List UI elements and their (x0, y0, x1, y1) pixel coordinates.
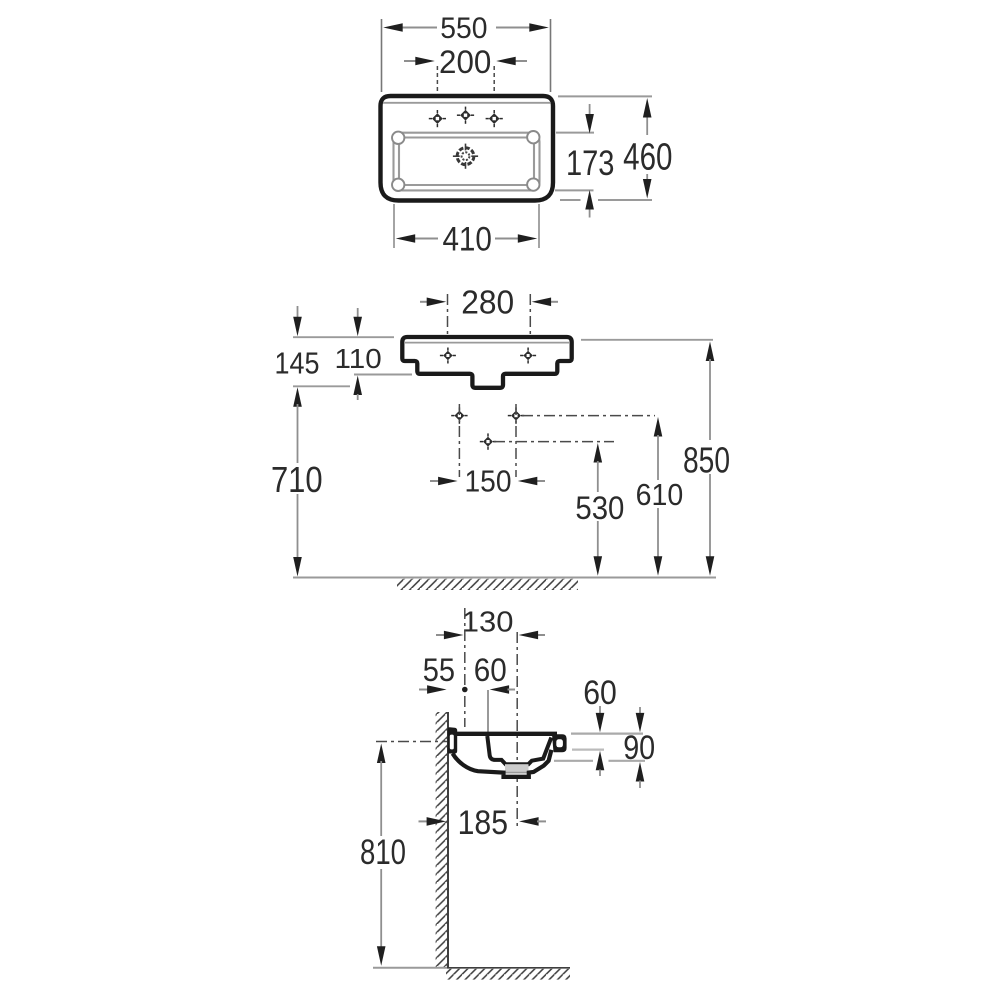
dim 60 right arrow up (596, 751, 605, 771)
dim 610 line (657, 435, 659, 480)
dim 90 arrow down (636, 713, 645, 733)
dim 810 line (380, 761, 382, 836)
extension line y386.3 (145 bottom) (293, 385, 350, 387)
dim 460 extension bottom (560, 199, 581, 201)
fixing hole right (front view) (508, 407, 524, 423)
washbasin outline front view (402, 337, 571, 388)
ground hatch side view (446, 969, 570, 980)
dim 185 tail right (537, 820, 546, 822)
dim 150 tail left (430, 480, 440, 482)
dim 550 line (401, 27, 437, 29)
drain outlet (top view) (453, 144, 478, 169)
backsplash slot (450, 735, 454, 750)
dim 200 arrow left (415, 57, 435, 66)
faucet hole left (top view) (429, 110, 446, 127)
wall face line (447, 712, 449, 968)
dim 55 tail left (419, 689, 429, 691)
centreline through fixing holes upper (522, 415, 655, 417)
front rim hook (side view) (552, 734, 567, 752)
dim 550 extension line right (550, 19, 552, 92)
dim 710 arrow down (293, 557, 302, 577)
dim 850 arrow down (706, 556, 715, 576)
dim 550 extension line left (381, 19, 383, 92)
tap hole left (front view) (440, 348, 456, 364)
ground line side view (373, 967, 447, 969)
dim 173 arrow tails (589, 104, 591, 116)
dim 460 line (646, 116, 648, 136)
dim 90 arrow up (636, 762, 645, 782)
centreline back fixing (side view) (464, 608, 466, 727)
dim 60 right tail bottom (599, 770, 601, 777)
dim 460 arrow up (643, 98, 652, 118)
overflow circle bottom-right (527, 178, 539, 190)
dim 460 arrow down (643, 179, 652, 199)
dim 110 arrow down (353, 317, 362, 337)
svg-text:60: 60 (474, 652, 507, 688)
svg-text:185: 185 (458, 804, 508, 842)
rim level centreline (376, 741, 447, 743)
dim 610 arrow down (654, 556, 663, 576)
dim 200 tail right (513, 60, 527, 62)
deck top line (side view) (455, 732, 557, 736)
drain stub fill (504, 773, 529, 777)
svg-text:200: 200 (439, 44, 491, 80)
overflow circle bottom-left (392, 179, 404, 191)
svg-text:710: 710 (271, 459, 323, 500)
dim 710 line (297, 404, 299, 463)
dim 410 arrow left (396, 234, 416, 243)
dim 280 arrow right (532, 298, 552, 307)
dim 185 tail left (419, 820, 428, 822)
drain recess fill (505, 764, 529, 772)
svg-text:280: 280 (461, 283, 514, 320)
dim 145 arrow tail top (297, 306, 299, 319)
basin rim outer line (top view) (394, 133, 540, 191)
extension deck top right (571, 732, 643, 734)
overflow circle top-left (392, 132, 404, 144)
dim 110 arrow up (353, 376, 362, 396)
tap hole right (front view) (520, 348, 536, 364)
dim 60 left arrow (490, 685, 510, 694)
svg-text:173: 173 (566, 144, 615, 183)
dim 200 arrow right (496, 57, 516, 66)
dim 530 arrow up (594, 443, 603, 463)
svg-text:150: 150 (465, 464, 512, 499)
extension line tap hole (side view) (487, 690, 489, 732)
svg-text:410: 410 (442, 221, 492, 259)
svg-text:55: 55 (423, 652, 455, 688)
dim 850 arrow up (706, 342, 715, 362)
backsplash section (side view) (448, 727, 458, 753)
fixing hole centre (front view) (480, 433, 496, 449)
svg-text:130: 130 (462, 607, 514, 639)
svg-text:60: 60 (583, 674, 617, 712)
ground hatch front view (397, 579, 578, 590)
dim 130 arrow right (519, 631, 539, 640)
svg-text:850: 850 (683, 440, 730, 481)
faucet hole centre (top view) (457, 107, 474, 124)
basin rim inner line (top view) (399, 138, 534, 186)
centreline vertical left fixing hole (458, 404, 460, 477)
dim 130 arrow left (444, 631, 464, 640)
svg-text:90: 90 (623, 729, 655, 767)
wall hatching (436, 712, 448, 968)
dim 530 arrow down (594, 556, 603, 576)
fixing hole left (front view) (451, 407, 467, 423)
dim 460 extension top (558, 95, 652, 97)
ground line front view (293, 577, 716, 579)
dim 200 tail left (404, 60, 417, 62)
dim 810 arrow down (377, 946, 386, 966)
front rim hook hole (556, 739, 563, 747)
svg-text:530: 530 (575, 490, 624, 526)
svg-text:145: 145 (275, 346, 320, 381)
dim 90 tail bottom (639, 781, 641, 789)
svg-text:460: 460 (623, 137, 672, 179)
dim 55 dot terminator (462, 687, 468, 693)
centreline basin axis (side view) (516, 632, 518, 827)
dim 130 tail right (536, 634, 545, 636)
dim 610 arrow up (654, 417, 663, 437)
extension rim bottom right (572, 748, 604, 750)
faucet hole right (top view) (486, 110, 503, 127)
front ledge line (405, 342, 569, 344)
dim 550 arrow right (529, 23, 549, 32)
dim 60 right tail top (599, 706, 601, 714)
dim 185 arrow left (427, 817, 447, 826)
dim 410 line (414, 238, 439, 240)
dim 280 arrow left (427, 298, 447, 307)
dim 150 arrow left (438, 477, 458, 486)
dim 173 arrow up (585, 190, 594, 210)
centreline through fixing hole centre (494, 441, 614, 443)
dim 150 tail right (536, 480, 545, 482)
dim 173 extension top (556, 132, 594, 134)
dim 200 dashed extension left (436, 66, 438, 124)
dim 60 left tail (508, 689, 516, 691)
svg-text:810: 810 (360, 833, 406, 872)
dim 173 extension bottom (555, 189, 594, 191)
dim 710 arrow up (293, 387, 302, 407)
extension outlet level right (554, 760, 593, 762)
svg-text:550: 550 (440, 12, 487, 45)
dim 145 arrow down (293, 317, 302, 337)
dim 550 arrow left (383, 23, 403, 32)
extension of rim top to right (581, 339, 713, 341)
dim 810 arrow up (377, 744, 386, 764)
dim 110 arrow tail top (357, 308, 359, 319)
svg-text:110: 110 (335, 343, 382, 374)
dim 280 centreline right (529, 294, 531, 351)
dim 410 extension right (538, 204, 540, 248)
dim 410 arrow right (518, 234, 538, 243)
dim 60 right arrow down (596, 713, 605, 733)
svg-text:610: 610 (636, 477, 684, 512)
dim 90 tail top (639, 707, 641, 714)
dim 110 arrow tail bottom (357, 394, 359, 400)
centreline vertical right fixing hole (515, 404, 517, 477)
dim 280 tail left (420, 301, 429, 303)
dim 130 tail left (436, 634, 446, 636)
dim 150 arrow right (518, 477, 538, 486)
dim 410 extension left (393, 204, 395, 248)
back ledge line top view (383, 102, 551, 104)
extension of rim top to left (293, 336, 394, 338)
dim 185 arrow right (519, 817, 539, 826)
dim 280 centreline left (447, 294, 449, 351)
dim 55 arrow (427, 685, 447, 694)
dim 280 tail right (549, 301, 558, 303)
washbasin outline top view (381, 96, 554, 201)
extension line y374.5 (110 bottom) (354, 374, 412, 376)
dim 850 line (709, 359, 711, 440)
bowl outer shell profile (side view) (453, 750, 552, 777)
dim 530 line (597, 461, 599, 492)
bowl inner profile (side view) (487, 736, 551, 764)
overflow circle top-right (527, 131, 539, 143)
dim 173 arrow down (585, 114, 594, 134)
dim 200 dashed extension right (493, 66, 495, 124)
